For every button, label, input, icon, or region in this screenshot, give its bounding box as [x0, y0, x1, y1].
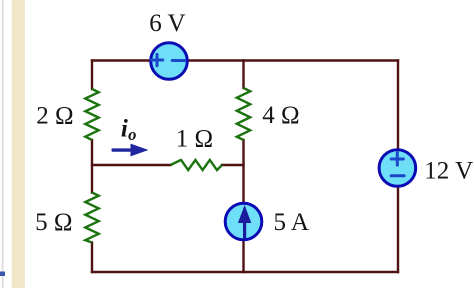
svg-text:12 V: 12 V — [424, 158, 473, 185]
svg-text:o: o — [128, 125, 136, 144]
svg-text:1 Ω: 1 Ω — [176, 125, 213, 152]
svg-text:5 Ω: 5 Ω — [35, 209, 72, 236]
svg-text:6 V: 6 V — [149, 10, 185, 37]
svg-text:i: i — [121, 116, 128, 143]
svg-text:4 Ω: 4 Ω — [262, 102, 299, 129]
svg-text:5 A: 5 A — [274, 209, 309, 236]
svg-text:2 Ω: 2 Ω — [36, 102, 73, 129]
